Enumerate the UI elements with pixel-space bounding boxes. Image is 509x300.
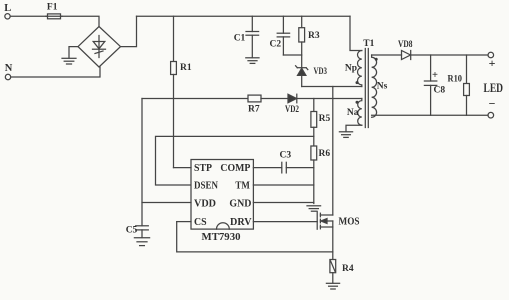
wire drain riser <box>332 87 334 216</box>
wire Na to ground <box>346 125 362 131</box>
ground (R6/GND) <box>307 205 321 207</box>
terminal + <box>488 52 494 58</box>
resistor R5 <box>313 99 315 112</box>
dot Ns polarity <box>375 58 378 61</box>
diode VD3 (zener) <box>297 67 306 69</box>
svg-text:R7: R7 <box>248 104 260 114</box>
svg-text:Na: Na <box>347 108 359 118</box>
capacitor C2 <box>282 16 284 33</box>
svg-text:F1: F1 <box>47 3 58 13</box>
dot Np polarity <box>356 81 359 84</box>
wire F1 to bridge top <box>62 16 99 27</box>
svg-text:MOS: MOS <box>339 217 360 228</box>
ground (bridge) <box>62 57 76 59</box>
wire MOS source to R4 <box>332 227 334 260</box>
wire L to F1 <box>10 15 47 17</box>
svg-text:R1: R1 <box>180 63 192 73</box>
svg-text:VD8: VD8 <box>398 40 413 50</box>
wire bridge right to top rail <box>121 16 137 46</box>
svg-text:C8: C8 <box>434 85 446 95</box>
wire CS sense <box>177 222 333 252</box>
resistor R10 <box>466 55 468 84</box>
svg-text:DRV: DRV <box>230 217 252 228</box>
svg-text:C3: C3 <box>279 150 291 160</box>
pin CS <box>177 221 191 223</box>
wire N to bridge bottom <box>11 67 100 77</box>
capacitor C8 <box>430 55 432 81</box>
ground (Na) <box>339 131 352 133</box>
resistor R3 <box>301 16 303 28</box>
IC U1 MT7930 <box>191 160 253 230</box>
resistor R4 <box>330 260 336 273</box>
wire R7 to VD2 <box>261 98 288 100</box>
svg-text:VDD: VDD <box>194 199 216 210</box>
svg-text:R10: R10 <box>448 74 463 84</box>
svg-text:VD3: VD3 <box>314 67 328 77</box>
wire C2 bottom to R3 bottom <box>283 54 301 56</box>
svg-text:R3: R3 <box>308 31 320 41</box>
wire top rail <box>137 15 351 17</box>
winding Na <box>358 99 362 126</box>
ground (C5) <box>134 237 149 239</box>
dot Na polarity <box>356 101 359 104</box>
resistor R1 <box>171 62 177 75</box>
svg-text:+: + <box>489 56 496 70</box>
pin VDD <box>142 202 191 204</box>
terminal - <box>488 112 494 118</box>
bridge rectifier <box>78 27 121 68</box>
capacitor C5 <box>136 225 149 227</box>
capacitor C1 <box>251 16 253 31</box>
svg-text:TM: TM <box>235 181 250 192</box>
pin COMP <box>253 167 281 169</box>
wire VD8 to + terminal <box>411 54 488 56</box>
svg-text:VD2: VD2 <box>285 105 299 115</box>
wire VDD riser top / R7 feed <box>142 98 248 100</box>
diode VD8 <box>402 51 411 60</box>
terminal N <box>5 74 10 79</box>
bridge diode symbol <box>98 36 100 58</box>
svg-text:LED: LED <box>484 80 504 95</box>
resistor R7 <box>248 95 261 102</box>
svg-text:+: + <box>432 70 438 81</box>
svg-text:T1: T1 <box>363 39 374 49</box>
svg-text:R4: R4 <box>342 264 354 274</box>
transformer core <box>364 49 366 128</box>
svg-text:Np: Np <box>345 64 357 74</box>
wire Ns bottom to - terminal <box>372 114 488 116</box>
winding Ns <box>372 55 377 117</box>
svg-text:N: N <box>5 63 13 74</box>
terminal L <box>5 14 10 19</box>
winding Np <box>357 51 361 87</box>
wire VD3/drain to Np bottom <box>302 86 362 88</box>
svg-text:DSEN: DSEN <box>194 181 218 192</box>
transistor MOS <box>316 211 318 229</box>
capacitor C3 <box>281 162 283 173</box>
wire Ns top to VD8 <box>372 54 402 56</box>
svg-text:R6: R6 <box>319 149 331 159</box>
svg-text:L: L <box>4 3 11 14</box>
fuse F1 <box>48 15 61 17</box>
svg-text:C2: C2 <box>269 40 281 50</box>
svg-text:C1: C1 <box>234 33 246 43</box>
wire bridge left to ground <box>69 47 78 58</box>
ground (C1) <box>246 57 259 59</box>
IC notch <box>217 223 230 229</box>
wire R1 to STP <box>173 75 175 168</box>
svg-text:GND: GND <box>229 199 251 210</box>
pin STP <box>174 167 192 169</box>
resistor R6 <box>311 146 317 160</box>
pin TM <box>253 184 313 186</box>
svg-text:−: − <box>489 97 496 111</box>
svg-text:R5: R5 <box>319 114 331 124</box>
wire DSEN to divider <box>156 136 314 185</box>
wire rail to R1 <box>173 16 175 61</box>
svg-text:STP: STP <box>194 163 213 174</box>
svg-text:CS: CS <box>194 217 207 228</box>
pin GND <box>253 202 313 204</box>
svg-text:C5: C5 <box>126 226 138 236</box>
svg-text:COMP: COMP <box>220 163 251 174</box>
svg-text:MT7930: MT7930 <box>202 231 241 243</box>
diode VD2 <box>288 94 297 103</box>
ground (R4) <box>326 282 339 284</box>
svg-text:Ns: Ns <box>377 81 388 91</box>
wire rail to Np top <box>350 16 362 50</box>
pin DRV <box>253 221 317 223</box>
wire VD2 to Na <box>297 98 362 100</box>
